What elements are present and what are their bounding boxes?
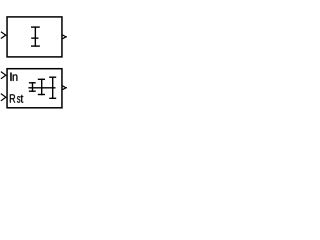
U2 icon: error bar 3 top cap	[49, 76, 56, 78]
U1 output port chevron	[62, 35, 66, 39]
U2 input port In chevron	[1, 72, 6, 79]
U1 input port chevron	[1, 32, 6, 39]
U2 port label Rst - letter t	[21, 95, 24, 103]
U2 icon: error bar 2 top cap	[38, 78, 45, 80]
U1 icon: error-bar stem	[34, 26, 36, 46]
U2 input port Rst chevron	[1, 94, 6, 101]
background	[0, 0, 133, 113]
U2 icon: error bar 2 stem	[41, 79, 43, 96]
U1 icon: error-bar top cap	[31, 26, 40, 28]
U1 output port tip dash	[66, 36, 67, 38]
U2 icon: error bar 3 stem	[52, 77, 54, 100]
U2 port label Rst - letter s	[17, 96, 20, 103]
U2 port label Rst - letter R	[10, 94, 15, 102]
U2 icon: error bar 3 bottom cap	[49, 97, 56, 99]
block U1 Standard Deviation (body)	[7, 17, 62, 57]
U2 icon: error bar 2 bottom cap	[38, 94, 45, 96]
U1 icon: error-bar bottom cap	[31, 45, 40, 47]
U2 output port chevron	[62, 86, 66, 90]
block U2 Standard Deviation running (body)	[7, 69, 62, 108]
U2 output port tip dash	[66, 87, 67, 89]
U2 icon: error bar 1 bottom cap	[29, 90, 36, 92]
U1 icon: error-bar mid tick	[31, 37, 38, 39]
U2 icon: horizontal axis line	[28, 87, 55, 89]
U2 icon: error bar 1 stem	[32, 82, 34, 92]
U2 icon: error bar 1 top cap	[29, 82, 36, 84]
U2 port label In - letter I	[10, 73, 11, 81]
U2 port label In - letter n	[13, 74, 18, 80]
